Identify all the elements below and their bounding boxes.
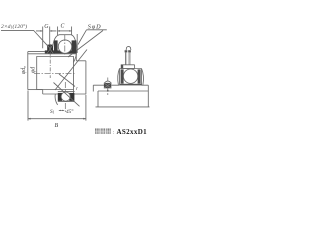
B dimension line (28, 118, 86, 120)
set screw section (47, 45, 53, 54)
sphere arc left tail (52, 49, 54, 54)
bottom section top line (58, 90, 75, 92)
svg-text:r: r (76, 87, 78, 92)
bore rectangle (37, 57, 74, 90)
svg-text:φdₐ: φdₐ (21, 66, 27, 74)
nipple boss (121, 65, 135, 69)
label SphiD (88, 23, 102, 30)
outer ring right face upper (76, 34, 78, 53)
inner ring OD line segments (93, 84, 148, 86)
label S1 (50, 109, 55, 115)
inner ring band right fig (120, 84, 142, 86)
bottom seal right (69, 93, 74, 101)
svg-text:AS2xxD1: AS2xxD1 (117, 128, 148, 136)
kanji blob strokes (95, 129, 111, 134)
label G (44, 24, 49, 30)
label C (61, 24, 65, 30)
sphere shoulder right (142, 69, 144, 86)
bore diameter label phi-d-a (21, 66, 27, 74)
sphere arc right tail (73, 49, 77, 63)
label r (76, 87, 78, 92)
outer ring sphere dome (52, 35, 77, 49)
caption: lubrication type label (95, 128, 147, 136)
seal left right fig (119, 69, 121, 86)
45deg section line (54, 83, 80, 107)
grease nipple hex right flat (128, 50, 131, 52)
svg-text:SφD: SφD (88, 23, 102, 30)
vertical centerline lower (64, 82, 66, 114)
set screw right fig body (104, 83, 111, 88)
C dimension line with arrows (58, 30, 72, 32)
outer ring right face lower (73, 90, 75, 102)
set screw centerline right fig (107, 78, 109, 96)
inner ring right face (85, 61, 87, 94)
inner ring left face (27, 52, 29, 90)
label B (55, 123, 59, 129)
top ball (58, 40, 71, 53)
bottom section bottom line (58, 101, 75, 103)
seal right right fig (141, 69, 143, 86)
ball right fig (123, 69, 137, 83)
inner ring step right top (76, 60, 86, 62)
bore left face right fig (97, 91, 99, 107)
bottom ball (61, 92, 70, 101)
outer ring top right fig (120, 68, 142, 70)
svg-text:2×d1(120°): 2×d1(120°) (1, 23, 27, 30)
horizontal axis centerline (34, 72, 75, 74)
grease nipple stem (126, 52, 130, 64)
r fillet leader (59, 74, 75, 87)
B extension lines (28, 91, 86, 121)
bottom seal left (58, 93, 62, 101)
inner ring bottom left (28, 89, 43, 91)
sphere shoulder left (118, 69, 120, 86)
grease nipple hex (125, 50, 128, 52)
set screw right fig dome (104, 81, 111, 83)
leader for 2xd1 (1, 30, 48, 46)
collar top line (28, 51, 45, 53)
inner ring top section band (45, 50, 77, 53)
set screw centerline (49, 44, 51, 78)
kanji blob 1 (95, 129, 111, 134)
label 2xd1(120deg) (1, 23, 27, 30)
bore top right fig (98, 90, 148, 92)
top seal right (72, 40, 77, 53)
G dimension line with arrows (36, 30, 56, 32)
bore diameter label phi-d (30, 67, 36, 73)
label 45deg (66, 108, 74, 115)
svg-text:45°: 45° (66, 108, 74, 115)
inner ring right step face (75, 54, 77, 61)
angle dimension arc (55, 94, 58, 105)
inner ring bottom line (43, 93, 86, 95)
S1 dimension ticks (59, 109, 64, 111)
step vertical (42, 90, 44, 94)
right face right fig (147, 85, 149, 107)
inner ring silhouette top line (28, 53, 77, 55)
svg-text:C: C (61, 24, 65, 30)
svg-text:B: B (55, 123, 59, 129)
inner ring left face right fig (92, 85, 94, 91)
vertical centerline upper (64, 35, 66, 56)
svg-text:φd: φd (30, 67, 36, 73)
axis line right fig (96, 106, 150, 108)
grease nipple dome (126, 46, 131, 50)
C extension lines (58, 27, 72, 36)
diagonal leader upper (55, 50, 87, 91)
G extension lines (43, 27, 50, 49)
set screw pointer arrowhead (107, 89, 109, 92)
SphiD underline and leader (68, 30, 107, 57)
top seal left (54, 40, 58, 53)
